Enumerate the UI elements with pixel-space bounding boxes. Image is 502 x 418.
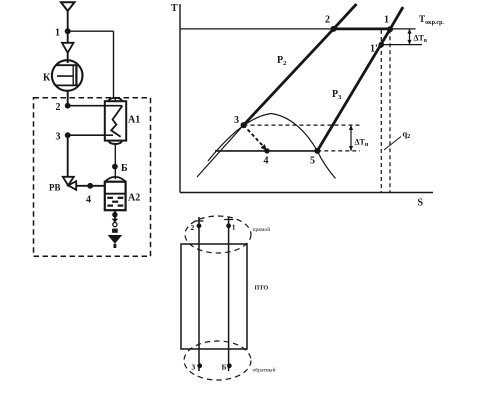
top dots and labels (197, 223, 202, 228)
node 4 (87, 183, 93, 189)
point 1 (387, 26, 393, 32)
wire funnel to node 1 (67, 11, 69, 29)
tube right (228, 217, 230, 372)
delta T n arrow (350, 125, 352, 151)
bottom stream blob (184, 341, 251, 380)
svg-text:3: 3 (234, 115, 239, 126)
svg-text:4: 4 (264, 156, 269, 167)
svg-text:1: 1 (55, 28, 60, 39)
dashed vertical through 1 (389, 29, 391, 192)
top stream blob (185, 216, 251, 253)
svg-text:4: 4 (86, 195, 91, 206)
svg-text:2: 2 (56, 102, 61, 113)
wire node 2 to A1 (68, 105, 105, 107)
svg-text:2: 2 (325, 15, 330, 26)
A1 coil zigzag (111, 106, 122, 137)
outflow arrow (108, 235, 123, 244)
svg-text:3: 3 (192, 363, 196, 372)
compressor internals (56, 64, 77, 66)
svg-text:S: S (418, 198, 424, 209)
svg-text:обратный: обратный (253, 367, 276, 374)
node 1 (65, 28, 71, 34)
svg-text:Б: Б (222, 363, 227, 372)
node 2 (65, 103, 71, 109)
A2 liquid dashes (107, 198, 123, 206)
svg-text:А2: А2 (128, 193, 140, 204)
svg-text:А1: А1 (128, 115, 140, 126)
dashed level from 3 (244, 124, 361, 126)
svg-text:К: К (43, 73, 51, 84)
svg-text:5: 5 (310, 156, 315, 167)
dashed vertical through 1' (380, 30, 382, 192)
point 5 (314, 148, 320, 154)
delta T v arrow (409, 29, 411, 45)
wire compressor to node 2 (67, 91, 69, 104)
svg-text:1: 1 (384, 15, 389, 26)
wire node1 to check valve (67, 31, 69, 42)
wire node 3 to A1 (68, 134, 105, 136)
isobar P3 (317, 7, 403, 151)
svg-text:прямой: прямой (253, 226, 271, 233)
process 2-1 thick (334, 27, 391, 30)
point 3 (241, 122, 247, 128)
bottom dots and labels (197, 363, 202, 368)
dashed level from 5 (317, 150, 360, 152)
wire riser down to A1 top (113, 31, 115, 98)
svg-text:ПТО: ПТО (255, 285, 269, 292)
heat exchanger A1 (109, 98, 122, 104)
small drain valve (112, 219, 119, 223)
axis S (180, 192, 433, 194)
node B (112, 164, 118, 170)
cold box dashed boundary (34, 98, 151, 257)
A2 bottom drain (114, 210, 116, 219)
svg-text:РВ: РВ (49, 183, 61, 193)
funnel inlet symbol (61, 2, 75, 11)
expansion valve PB (angle valve) (63, 177, 74, 186)
tube left (198, 217, 200, 371)
point 1' (379, 42, 385, 48)
svg-text:1: 1 (232, 223, 236, 232)
q2 leader and label (384, 137, 401, 151)
saturation dome (208, 114, 336, 179)
node 3 (65, 132, 71, 138)
ambient temperature line (180, 28, 416, 30)
isobar P2 (244, 4, 357, 125)
expansion 3-4 dashed arrow (244, 125, 264, 146)
line from 1' to dT bracket (381, 44, 422, 46)
wire valve to A2 (76, 185, 105, 187)
HX body (181, 244, 247, 349)
point 4 (264, 148, 269, 153)
check valve (open triangle) (62, 43, 74, 53)
wire A1 top stub (114, 98, 116, 101)
point 2 (331, 26, 337, 32)
wire valve to compressor (67, 53, 69, 63)
vessel A2 (105, 177, 126, 182)
wire A1 to node B (114, 144, 116, 180)
svg-text:ΔТв: ΔТв (414, 34, 428, 44)
svg-text:Т: Т (171, 3, 178, 14)
line 4-5 (215, 150, 317, 152)
svg-text:1': 1' (370, 44, 378, 55)
svg-text:3: 3 (56, 132, 61, 143)
A1 coil inlet/outlet wires (105, 105, 123, 107)
svg-text:ΔТн: ΔТн (355, 138, 369, 148)
svg-text:q2: q2 (403, 129, 411, 141)
wire node 3 down to valve PB (67, 135, 69, 176)
svg-text:Токр.ср.: Токр.ср. (419, 14, 444, 26)
svg-text:Б: Б (121, 163, 128, 174)
svg-text:Р3: Р3 (332, 89, 342, 101)
svg-text:2: 2 (191, 223, 195, 232)
svg-text:Р2: Р2 (277, 55, 286, 67)
compressor K circle (52, 60, 83, 91)
wire node 1 to right riser (68, 30, 114, 32)
